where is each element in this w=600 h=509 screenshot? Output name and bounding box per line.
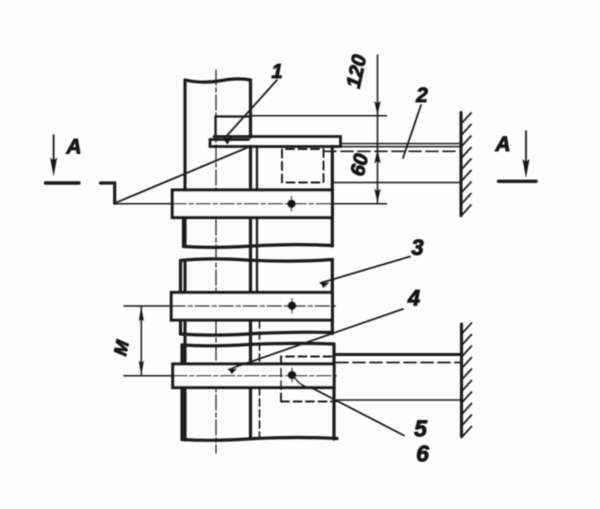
bolt B4 bbox=[291, 368, 293, 382]
column right edge bbox=[249, 80, 252, 439]
band 4 centerline bbox=[124, 375, 173, 377]
svg-text:A: A bbox=[494, 133, 510, 156]
bracket 4 right edge bbox=[332, 344, 335, 439]
svg-text:1: 1 bbox=[271, 61, 282, 83]
section marker A right bbox=[525, 131, 527, 162]
bracket 3 bottom wavy bbox=[181, 332, 333, 335]
hidden detail dashed rect 1 bbox=[282, 149, 324, 183]
weld Z mark bbox=[101, 183, 115, 203]
plate tab bbox=[210, 140, 249, 147]
bracket 4 bottom wavy bbox=[182, 438, 337, 441]
svg-text:3: 3 bbox=[411, 235, 423, 260]
rod 2 top edges (double line) bbox=[341, 144, 462, 147]
wall 2 hatching bbox=[462, 323, 472, 438]
leader 1 bbox=[224, 80, 278, 140]
svg-text:6: 6 bbox=[416, 441, 429, 467]
bracket 3 top wavy bbox=[181, 259, 333, 261]
bolt B3 bbox=[291, 299, 293, 314]
band 1 centerline bbox=[115, 203, 172, 205]
clamp band 4 bbox=[173, 364, 334, 388]
dimension M line with arrows bbox=[140, 306, 142, 376]
svg-text:5: 5 bbox=[414, 416, 428, 442]
bracket 4 left edge bbox=[180, 345, 183, 440]
column hidden inner edge (dashed) bbox=[259, 321, 261, 437]
dimension M extension lines bbox=[124, 375, 170, 377]
hidden detail dashed rect 4 bbox=[281, 357, 336, 402]
column vertical centerline bbox=[215, 70, 217, 453]
rod 5 top edge bbox=[336, 353, 462, 356]
dimension line vertical bbox=[377, 55, 379, 204]
band 3 centerline bbox=[124, 305, 171, 307]
wall 1 hatching bbox=[461, 113, 471, 216]
plate (item 1) main bbox=[210, 137, 341, 147]
svg-text:120: 120 bbox=[343, 53, 371, 90]
leader 2 bbox=[403, 105, 421, 158]
bracket U1 notch above plate bbox=[216, 117, 251, 137]
bracket 1 bottom wavy bbox=[184, 245, 333, 248]
rod 5 bottom edge bbox=[336, 399, 462, 401]
leader 4 bbox=[229, 309, 404, 370]
column inner vertical line bbox=[256, 147, 258, 293]
column left edge bbox=[183, 80, 186, 440]
dim arrow at 115.5 (down) bbox=[374, 101, 380, 115]
column top wavy bbox=[185, 79, 251, 82]
svg-text:4: 4 bbox=[407, 286, 420, 311]
bolt B1 bbox=[291, 197, 293, 212]
clamp band 3 bbox=[171, 293, 332, 321]
bracket 1 right edge bbox=[331, 147, 334, 247]
bracket 3 right edge bbox=[331, 260, 334, 334]
svg-text:2: 2 bbox=[415, 84, 428, 107]
bracket 3 left edge bbox=[179, 261, 182, 335]
dim arrow at 203 (down) bbox=[374, 189, 380, 203]
leader line from Z mark to plate corner bbox=[115, 148, 248, 204]
bracket 1 left edge lower bbox=[182, 218, 185, 246]
section marker A left bbox=[53, 135, 55, 160]
rod 2 hidden centerline bbox=[324, 150, 461, 152]
dim arrow at 150 (up) bbox=[374, 150, 380, 164]
rod 2 bottom edge bbox=[332, 182, 461, 184]
svg-text:60: 60 bbox=[347, 152, 373, 178]
bracket 4 top wavy bbox=[182, 343, 334, 346]
clamp band 1 bbox=[172, 190, 332, 218]
wall 1 bbox=[459, 113, 462, 216]
leader 3 bbox=[321, 257, 411, 284]
extension line (top, y=115.5) bbox=[251, 115, 387, 117]
wall 2 bbox=[460, 324, 463, 437]
svg-text:A: A bbox=[65, 136, 81, 159]
leader 5/6 from bolt bbox=[295, 378, 405, 436]
svg-text:M: M bbox=[110, 338, 133, 358]
rod 5 hidden centerline bbox=[336, 362, 462, 364]
